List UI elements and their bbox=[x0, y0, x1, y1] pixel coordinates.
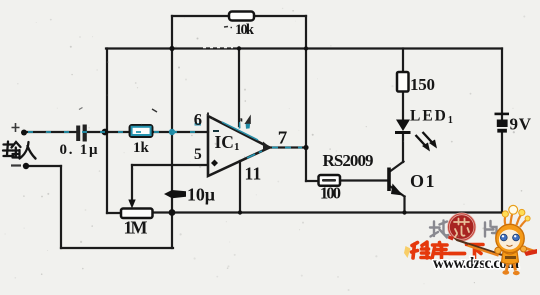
svg-text:10k: 10k bbox=[235, 22, 255, 38]
svg-text:5: 5 bbox=[194, 146, 202, 163]
svg-text:6: 6 bbox=[194, 110, 202, 129]
svg-text:7: 7 bbox=[278, 128, 288, 148]
svg-text:1k: 1k bbox=[133, 140, 150, 156]
svg-text:100: 100 bbox=[320, 184, 341, 203]
svg-text:150: 150 bbox=[410, 75, 435, 94]
svg-text:10μ: 10μ bbox=[187, 185, 215, 205]
svg-text:1: 1 bbox=[253, 164, 262, 184]
svg-text:1M: 1M bbox=[124, 218, 148, 238]
svg-text:RS2009: RS2009 bbox=[323, 151, 374, 170]
svg-text:9V: 9V bbox=[510, 115, 532, 134]
svg-text:O1: O1 bbox=[410, 171, 436, 191]
